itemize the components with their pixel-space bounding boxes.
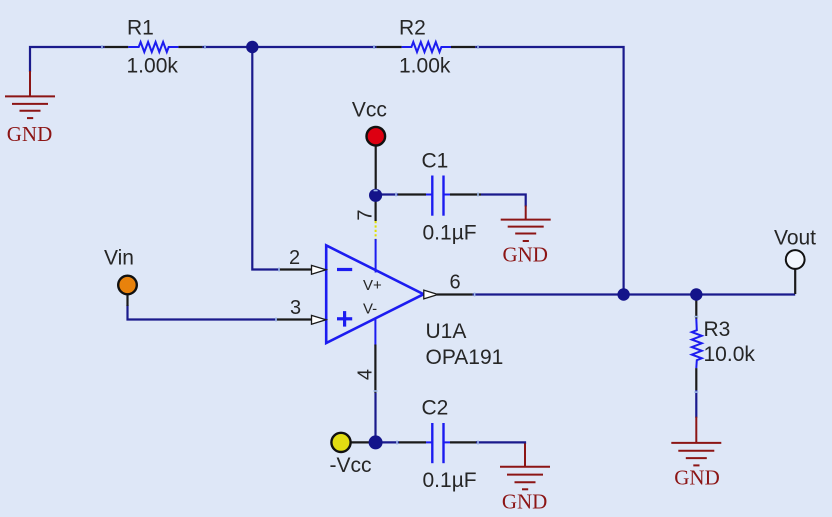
wire: Vin down and to pin3 <box>128 305 278 320</box>
wire: R1 left black lead <box>105 46 129 48</box>
svg-text:R1: R1 <box>127 17 154 40</box>
svg-text:7: 7 <box>355 209 377 220</box>
svg-text:GND: GND <box>7 122 53 146</box>
svg-text:OPA191: OPA191 <box>426 346 504 369</box>
wire: R2 left black lead <box>376 46 401 48</box>
wire: C2 left leads <box>376 441 400 443</box>
svg-text:GND: GND <box>674 466 720 490</box>
wire: pin2 black lead <box>280 268 313 270</box>
resistor R1 <box>128 42 178 52</box>
svg-text:U1A: U1A <box>426 320 467 343</box>
wire: R1 right black lead <box>178 46 202 48</box>
wire: pin3 black lead <box>277 318 313 320</box>
junction node output/R3 <box>690 288 702 300</box>
junction node output/feedback <box>617 288 629 300</box>
wire: top rail left segment (GND corner to R1) <box>30 47 105 72</box>
op-amp plus sign <box>337 317 352 320</box>
op-amp pin3 arrow <box>312 315 327 324</box>
wire: output black lead <box>437 293 473 295</box>
ground G1 (top left) <box>5 71 55 118</box>
wire: Vcc black lead down to pin7 node <box>375 146 377 190</box>
wire: R2 right black lead <box>451 46 475 48</box>
svg-text:Vcc: Vcc <box>352 99 387 122</box>
junction node A (top rail) <box>246 41 258 53</box>
wire: R1 to node A <box>202 46 376 48</box>
svg-text:R2: R2 <box>399 17 426 40</box>
svg-text:2: 2 <box>289 247 300 269</box>
wire: R3 to GND <box>695 390 697 418</box>
wire: R2 to top-right corner down to output row <box>475 47 623 295</box>
svg-text:V+: V+ <box>363 277 382 294</box>
wire: pin7 blue segment into op-amp <box>375 239 377 273</box>
ground G3 (C2) <box>500 443 550 489</box>
terminal Vout <box>786 250 805 269</box>
svg-text:10.0k: 10.0k <box>704 343 756 366</box>
svg-text:0.1µF: 0.1µF <box>423 469 477 492</box>
wire: pin4 blue segment from op-amp <box>374 318 376 345</box>
svg-text:0.1µF: 0.1µF <box>423 221 477 244</box>
svg-text:3: 3 <box>290 297 301 319</box>
svg-text:Vin: Vin <box>104 247 134 270</box>
wire: Vin black stub <box>126 295 128 306</box>
terminal Vin <box>118 276 137 295</box>
svg-text:GND: GND <box>502 490 548 514</box>
op-amp pin2 arrow <box>312 265 327 274</box>
svg-text:Vout: Vout <box>774 226 816 249</box>
svg-text:R3: R3 <box>704 318 731 341</box>
junction node pin4/C2 <box>369 435 383 449</box>
wire: pin7 yellow dashed highlight <box>375 221 377 242</box>
wire: C1 right leads to GND corner <box>450 193 481 195</box>
resistor R3 <box>692 319 702 369</box>
capacitor C2 <box>426 423 450 463</box>
svg-text:C1: C1 <box>422 149 449 172</box>
wire: R3 top black lead <box>695 301 697 319</box>
wire: C2 right leads to GND corner <box>450 441 478 443</box>
svg-text:1.00k: 1.00k <box>127 55 179 78</box>
ground G4 (R3) <box>671 417 721 466</box>
wire: -Vcc black lead to node <box>351 441 370 443</box>
connection tick marks (light blue) <box>102 45 698 445</box>
svg-text:6: 6 <box>450 271 461 293</box>
svg-text:1.00k: 1.00k <box>399 55 451 78</box>
svg-text:C2: C2 <box>422 397 449 420</box>
wire: pin4 black lead <box>374 345 376 393</box>
wire: C1 left leads <box>376 193 398 195</box>
wire: node A down to pin2 corner <box>252 47 280 270</box>
op-amp output arrow <box>424 290 438 299</box>
svg-text:GND: GND <box>502 243 548 267</box>
wire: R3 bottom black lead <box>695 368 697 390</box>
op-amp U1 triangle <box>326 245 423 343</box>
svg-text:-Vcc: -Vcc <box>330 454 372 477</box>
capacitor C1 <box>426 176 450 216</box>
terminal Vcc <box>367 127 386 146</box>
junction node pin7/C1 <box>369 189 382 202</box>
resistor R2 <box>402 42 451 52</box>
svg-text:4: 4 <box>355 369 377 380</box>
wire: pin7 black lead <box>375 201 377 221</box>
svg-text:V-: V- <box>363 301 377 318</box>
wire: Vout black stub <box>794 269 796 294</box>
ground G2 (C1) <box>501 206 551 242</box>
wire: pin4 to C2 node <box>374 393 376 443</box>
op-amp minus sign <box>337 268 352 271</box>
terminal -Vcc <box>331 433 350 452</box>
wire: output row to Vout <box>473 293 796 295</box>
